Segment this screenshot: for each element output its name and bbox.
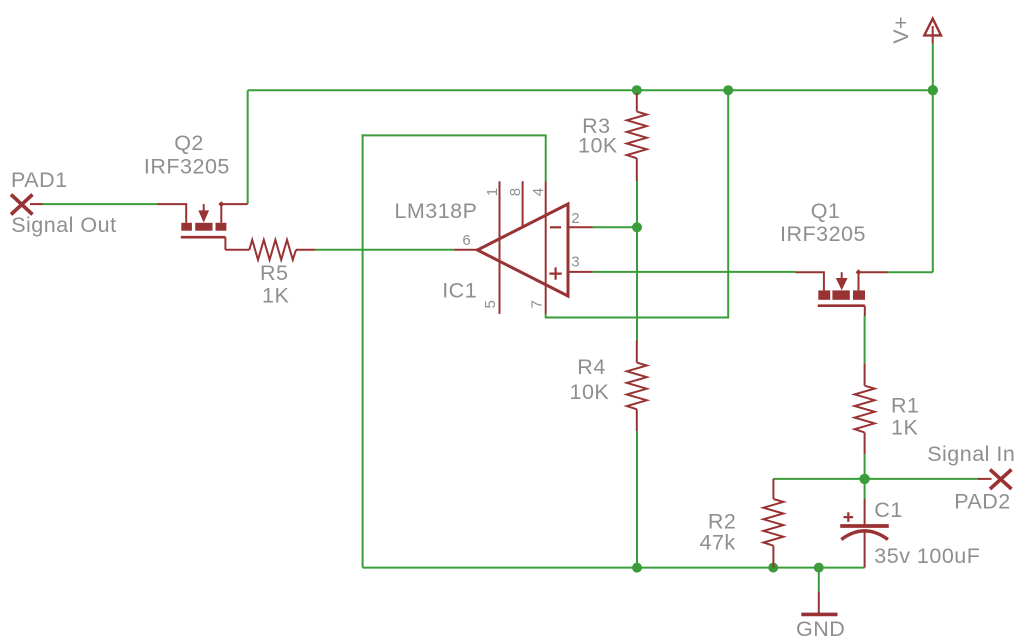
node junction pin2 R3 R4: [632, 222, 642, 232]
node junction bottom rail GND: [814, 563, 824, 573]
pad PAD1 cross: [11, 195, 33, 215]
resistor R1 1K: [855, 363, 875, 454]
svg-text:R5: R5: [260, 261, 288, 285]
wire Q1 source to right drop: [888, 271, 933, 273]
pad PAD2 cross: [990, 470, 1012, 490]
svg-text:1K: 1K: [891, 416, 918, 440]
wire right drop to Q1: [932, 90, 934, 272]
svg-text:R4: R4: [577, 355, 605, 379]
svg-text:LM318P: LM318P: [394, 199, 477, 223]
svg-text:10K: 10K: [570, 380, 610, 404]
svg-text:3: 3: [571, 254, 579, 271]
wire pin3 to Q1: [593, 271, 796, 273]
svg-text:PAD1: PAD1: [11, 168, 68, 192]
node junction bottom rail R4: [632, 563, 642, 573]
svg-text:5: 5: [482, 300, 499, 308]
svg-text:IRF3205: IRF3205: [780, 222, 866, 246]
svg-text:R1: R1: [891, 394, 919, 418]
svg-text:7: 7: [528, 300, 545, 308]
wire feedback box left side: [362, 134, 364, 567]
svg-text:35v 100uF: 35v 100uF: [874, 544, 980, 568]
node junction top rail R3: [632, 85, 642, 95]
wire node to PAD2: [865, 478, 978, 480]
svg-text:GND: GND: [796, 617, 845, 641]
resistor R4 10K: [627, 341, 647, 432]
svg-text:Signal Out: Signal Out: [11, 213, 116, 237]
svg-text:2: 2: [571, 210, 579, 227]
wire R4 to bottom rail: [636, 431, 638, 567]
svg-text:Q2: Q2: [174, 131, 204, 155]
wire node to C1: [864, 479, 866, 499]
wire GND stub: [818, 568, 820, 592]
ground symbol: [801, 592, 837, 615]
wire R5 to op-amp pin6: [316, 249, 455, 251]
svg-text:IRF3205: IRF3205: [144, 154, 230, 178]
wire Q2 drain drop: [247, 90, 249, 204]
svg-text:1: 1: [484, 188, 501, 196]
svg-text:47k: 47k: [700, 530, 736, 554]
node junction Signal In: [859, 474, 869, 484]
svg-text:10K: 10K: [578, 134, 618, 158]
svg-text:1K: 1K: [262, 283, 289, 307]
transistor Q2 IRF3205: [158, 201, 248, 250]
wire bottom rail: [363, 567, 865, 569]
resistor R3 10K: [627, 93, 647, 181]
svg-text:6: 6: [462, 232, 470, 249]
resistor R5 1K: [225, 240, 315, 260]
wire node to R2: [773, 478, 864, 480]
svg-text:Signal In: Signal In: [927, 442, 1015, 466]
capacitor C1 35v 100uF: [840, 499, 889, 568]
wire pin7 to V+ rail: [546, 90, 729, 317]
wire Q1 gate to R1: [864, 316, 866, 363]
svg-text:Q1: Q1: [811, 199, 841, 223]
wire pin2 to node: [593, 226, 638, 228]
node junction bottom rail R2: [768, 563, 778, 573]
svg-text:4: 4: [530, 188, 547, 196]
svg-text:V+: V+: [889, 16, 913, 44]
wire R1 to node: [864, 454, 866, 479]
wire PAD1 to Q2: [43, 203, 158, 205]
transistor Q1 IRF3205: [795, 269, 887, 316]
svg-text:C1: C1: [874, 498, 902, 522]
node junction V+ corner: [928, 85, 938, 95]
svg-text:PAD2: PAD2: [954, 490, 1011, 514]
wire R3 to R4 vertical: [636, 181, 638, 341]
svg-text:8: 8: [507, 188, 524, 196]
node junction top rail pin7 branch: [723, 85, 733, 95]
svg-text:IC1: IC1: [442, 279, 477, 303]
resistor R2 47k: [763, 479, 783, 568]
wire V+ stub: [932, 44, 934, 90]
V+ supply symbol: [924, 19, 941, 44]
wire box top to pin4: [362, 135, 546, 181]
pad PAD2 pin wire: [978, 478, 992, 480]
wire top V+ rail: [248, 89, 933, 91]
op-amp IC1 LM318P: [454, 181, 592, 314]
pad PAD1 pin wire: [30, 203, 43, 205]
